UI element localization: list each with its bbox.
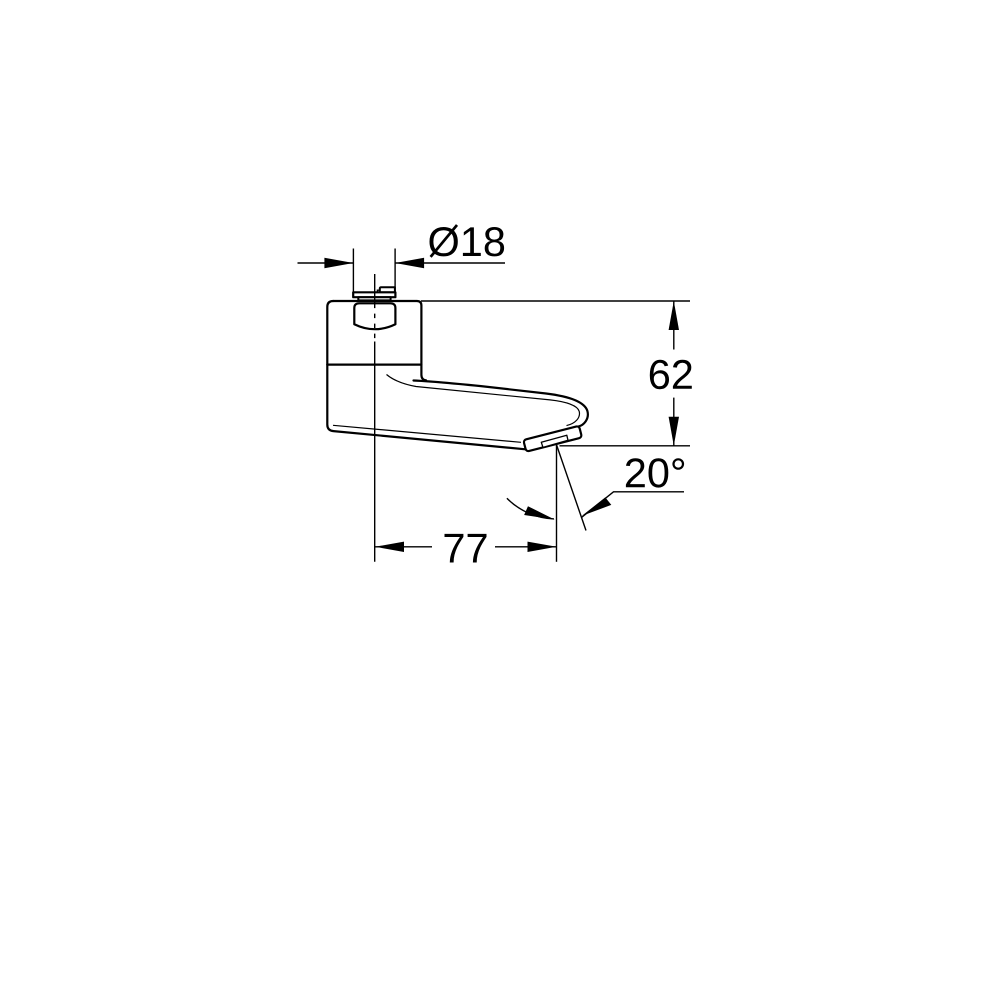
aerator slot [541,435,568,447]
stepped stub on pipe [380,287,395,292]
body interior line [327,364,421,366]
label 77 [445,534,487,563]
arrow 77 left [375,542,404,552]
arrow 62 bottom [669,417,679,446]
outlet housing [523,426,582,452]
pipe / extension lines of dia 18 [353,249,395,293]
extension line bottom (62) [560,445,691,447]
dimension dia18 line left [298,262,506,264]
extension line right (77) [556,445,558,562]
arrow leader [582,497,612,516]
spout inner bottom highlight line [333,425,521,442]
centerline [374,274,376,562]
washer plate 1 [353,292,395,297]
dimension 62 line [673,301,675,446]
dimension 77 line [375,546,557,548]
washer plate 2 [358,297,390,300]
extension line top (62) [421,300,690,302]
arrow arc tip [524,506,556,523]
spout body outer outline [327,301,588,449]
arrow 77 right [528,542,557,552]
angle arc [507,498,554,519]
dia18 slash [431,225,457,257]
spout inner top highlight line [387,375,580,426]
arrow dia18 left [324,258,353,268]
leader line 20deg [582,492,685,518]
arrow dia18 right [395,258,424,268]
label dia18 [430,227,505,256]
nut [354,303,395,329]
label 20deg [626,458,684,487]
angled 20 deg line [556,445,586,531]
arrow 62 top [669,301,679,330]
label 62 [650,360,692,389]
